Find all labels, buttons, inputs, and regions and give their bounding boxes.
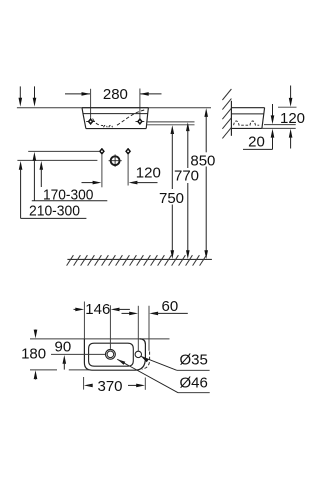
dimension 146 extension lines xyxy=(84,302,110,349)
dimension 280 between wall fixing holes xyxy=(65,86,162,118)
wall hatching (side view) xyxy=(222,89,231,138)
tap hole Ø46 (plan view) xyxy=(106,349,116,359)
floor line xyxy=(67,258,212,260)
svg-text:146: 146 xyxy=(85,301,110,318)
wall line (plan view) xyxy=(30,338,170,340)
dimension 120 between fixing points xyxy=(82,165,161,185)
hole Ø35 (plan view) xyxy=(135,351,141,357)
drain detail (dashed, front view) xyxy=(104,125,113,127)
reference line B to tap hole xyxy=(17,159,97,161)
left mounting arrow 1 xyxy=(19,86,23,106)
washbasin plan outline xyxy=(84,339,145,370)
dimension 90 xyxy=(55,339,72,370)
dimension 370 overall width xyxy=(84,377,146,395)
svg-text:280: 280 xyxy=(103,86,128,103)
wall fixing hole right (front view) xyxy=(136,118,145,125)
inner bowl outline (plan) xyxy=(89,343,134,366)
wall fixing hole left (front view) xyxy=(86,118,95,125)
dimension 850 floor to rim xyxy=(190,108,215,259)
svg-text:120: 120 xyxy=(136,165,161,182)
wall mounting reference line xyxy=(17,107,211,109)
shelf line under 170-300 xyxy=(32,200,108,202)
leader line Ø46 xyxy=(117,359,209,392)
svg-text:90: 90 xyxy=(55,339,72,356)
reference line 750 level xyxy=(146,124,194,126)
svg-text:210-300: 210-300 xyxy=(29,202,80,219)
fixing point marker right xyxy=(125,148,130,186)
leader line Ø35 xyxy=(141,352,210,371)
wall line (side view) xyxy=(230,101,232,136)
svg-text:370: 370 xyxy=(97,378,122,395)
dimension 146 xyxy=(74,301,130,318)
washbasin side profile xyxy=(231,108,264,129)
svg-text:750: 750 xyxy=(159,190,184,207)
dimension arrow at far left xyxy=(19,161,23,218)
hidden bowl contour right (dashed) xyxy=(117,110,145,126)
svg-text:180: 180 xyxy=(21,346,46,363)
hidden bowl contour (dashed, front view) xyxy=(93,119,103,126)
dimension 120 basin height (side view) xyxy=(278,86,305,149)
fixing point marker left xyxy=(99,148,104,187)
svg-text:20: 20 xyxy=(248,133,265,150)
svg-text:60: 60 xyxy=(162,298,179,315)
dimension 60 extension lines xyxy=(138,306,149,351)
hidden edge (dashed, plan view) xyxy=(142,352,150,370)
svg-text:Ø35: Ø35 xyxy=(180,352,208,369)
reference line A to fixing point xyxy=(28,150,99,152)
svg-text:Ø46: Ø46 xyxy=(180,374,208,391)
floor hatching xyxy=(67,255,207,265)
shelf line under 210-300 xyxy=(21,217,87,219)
washbasin front view outline xyxy=(82,108,148,129)
left mounting arrow 2 xyxy=(33,86,37,106)
tap centre line (plan) xyxy=(51,353,105,355)
svg-text:770: 770 xyxy=(174,168,199,185)
dimension 20 (side view) xyxy=(243,104,296,150)
reference line 770 level xyxy=(146,121,194,123)
dimension 210-300 fixing height range xyxy=(29,152,80,220)
hidden fixing contour (dashed, side view) xyxy=(234,121,260,125)
dimension 770 floor to fixing holes xyxy=(174,122,199,259)
dimension 60 xyxy=(122,298,188,315)
dimension 180 basin depth xyxy=(21,330,46,380)
dimension 750 floor to basin bottom xyxy=(159,125,184,259)
dimension 170-300 tap height range xyxy=(40,161,94,203)
extension line bottom left (plan) xyxy=(30,369,91,371)
tap hole symbol (circle with cross) xyxy=(109,154,122,167)
